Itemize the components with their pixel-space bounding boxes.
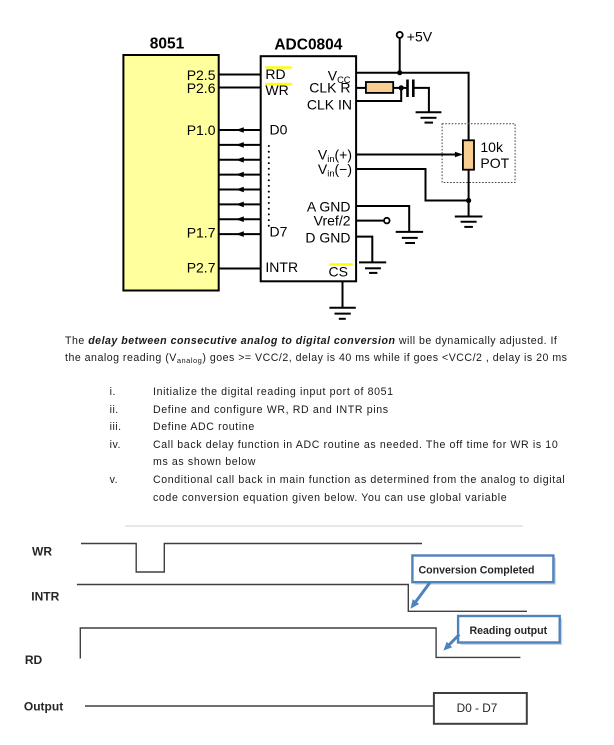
- +5V terminal: [397, 32, 403, 38]
- callout shadow (Conversion Completed): [415, 558, 556, 585]
- INTR waveform: [77, 585, 527, 612]
- wire Vin(+) with arrow: [356, 152, 463, 158]
- svg-text:Vin(−): Vin(−): [318, 161, 352, 179]
- svg-text:8051: 8051: [150, 36, 185, 53]
- junction node CLK: [399, 85, 404, 90]
- svg-text:+5V: +5V: [407, 28, 433, 44]
- callout shadow (Reading output): [461, 619, 563, 646]
- svg-text:WR: WR: [265, 82, 288, 98]
- callout arrow 1: [411, 583, 431, 609]
- wire D GND: [356, 237, 372, 263]
- capacitor C: [408, 80, 414, 98]
- svg-text:P1.7: P1.7: [187, 224, 216, 240]
- ADC0804 block: [261, 56, 356, 281]
- svg-text:WR: WR: [32, 545, 52, 559]
- wire VCC rail: [356, 73, 469, 141]
- wire P2.6 to WR: [219, 87, 261, 89]
- ground (D GND): [359, 262, 386, 273]
- svg-text:D0: D0: [270, 122, 288, 138]
- wire POT to ground: [468, 170, 470, 217]
- data wire D4: [219, 187, 261, 193]
- svg-text:CS: CS: [329, 264, 348, 280]
- svg-text:RD: RD: [25, 653, 43, 667]
- callout box Reading output: [458, 616, 560, 643]
- wire capacitor to ground: [413, 88, 429, 112]
- potentiometer body: [463, 140, 474, 169]
- svg-text:Reading output: Reading output: [469, 625, 547, 637]
- wire CS to ground: [342, 281, 344, 307]
- svg-text:CLK IN: CLK IN: [307, 97, 352, 113]
- wire resistor to capacitor: [393, 87, 406, 89]
- ground (POT): [455, 217, 483, 227]
- ground (A GND): [396, 232, 423, 243]
- junction POT bottom: [466, 198, 471, 203]
- svg-text:INTR: INTR: [265, 259, 298, 275]
- wire Vref/2: [356, 220, 384, 222]
- RD waveform: [80, 628, 520, 659]
- POT dashed box: [442, 124, 515, 183]
- resistor R: [366, 82, 393, 93]
- WR waveform: [81, 544, 422, 573]
- WR overline: [265, 83, 292, 85]
- svg-text:POT: POT: [480, 155, 509, 171]
- wire Vin(-): [356, 169, 469, 201]
- numbered list: [110, 386, 116, 398]
- junction VCC: [397, 70, 402, 75]
- svg-text:P2.6: P2.6: [187, 80, 216, 96]
- data wire D7: [219, 231, 261, 237]
- svg-text:D7: D7: [270, 224, 288, 240]
- svg-text:Vref/2: Vref/2: [314, 213, 351, 229]
- CS overline: [329, 263, 353, 265]
- svg-text:Output: Output: [24, 700, 63, 714]
- RD overline: [265, 66, 292, 68]
- svg-text:10k: 10k: [480, 139, 504, 155]
- svg-text:D0 - D7: D0 - D7: [457, 701, 498, 715]
- svg-text:P1.0: P1.0: [187, 122, 216, 138]
- svg-text:P2.7: P2.7: [187, 259, 216, 275]
- wire INTR to P2.7: [219, 268, 261, 270]
- svg-text:D GND: D GND: [305, 229, 350, 245]
- wire +5V drop: [399, 38, 401, 73]
- Vref/2 open terminal: [384, 218, 390, 224]
- data wire D1: [219, 142, 261, 148]
- dotted bus ellipsis: [268, 145, 270, 227]
- callout arrow 2: [443, 635, 459, 651]
- wire CLK IN: [356, 88, 401, 101]
- data wire D0: [219, 127, 261, 133]
- ground (capacitor): [416, 112, 442, 122]
- callout box Conversion Completed: [412, 556, 553, 583]
- 8051 block: [123, 55, 218, 291]
- svg-text:ADC0804: ADC0804: [274, 37, 342, 54]
- svg-text:RD: RD: [265, 66, 285, 82]
- data wire D3: [219, 172, 261, 178]
- faint top rule of timing diagram: [125, 525, 523, 527]
- svg-text:INTR: INTR: [31, 590, 59, 604]
- data wire D6: [219, 216, 261, 222]
- ground (CS): [329, 308, 355, 319]
- wire P2.5 to RD: [219, 74, 261, 76]
- svg-text:CLK R: CLK R: [309, 79, 350, 95]
- svg-text:Conversion Completed: Conversion Completed: [419, 564, 535, 576]
- data wire D5: [219, 202, 261, 208]
- D0-D7 data box: [434, 693, 527, 724]
- paragraph text: [65, 333, 567, 370]
- wire CLK R to resistor: [356, 87, 367, 89]
- data wire D2: [219, 157, 261, 163]
- wire A GND: [356, 206, 409, 232]
- Output waveform: [85, 705, 434, 707]
